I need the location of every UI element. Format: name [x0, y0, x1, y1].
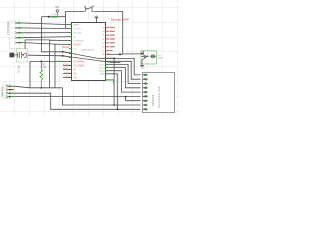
- svg-text:L1 100: L1 100: [51, 14, 58, 16]
- svg-text:4: 4: [12, 38, 13, 40]
- svg-text:FTDI BASIC: FTDI BASIC: [7, 21, 10, 35]
- svg-text:Dev real time clock: Dev real time clock: [157, 85, 161, 108]
- svg-text:26: 26: [102, 39, 104, 41]
- svg-text:2: 2: [12, 28, 13, 30]
- svg-text:D3 (PWM): D3 (PWM): [74, 41, 84, 43]
- svg-text:20: 20: [102, 54, 104, 56]
- svg-text:27: 27: [102, 43, 104, 45]
- svg-text:D5 (PWM): D5 (PWM): [74, 61, 85, 63]
- svg-text:(D12): (D12): [99, 67, 105, 69]
- svg-text:RX (D0): RX (D0): [74, 33, 82, 35]
- svg-text:1: 1: [12, 23, 13, 25]
- svg-text:ATMEGA328P: ATMEGA328P: [81, 48, 95, 51]
- svg-text:5V: 5V: [55, 5, 59, 9]
- svg-text:AREF: AREF: [74, 24, 80, 27]
- svg-text:25: 25: [102, 35, 104, 37]
- svg-text:GND: GND: [100, 74, 105, 76]
- svg-text:Atmega 328P: Atmega 328P: [111, 18, 129, 22]
- svg-text:BR23D08: BR23D08: [151, 94, 155, 106]
- svg-text:BATT 9V: BATT 9V: [1, 86, 4, 96]
- svg-text:24: 24: [102, 31, 104, 33]
- svg-text:RESET: RESET: [62, 47, 70, 49]
- svg-text:(D11): (D11): [99, 64, 105, 66]
- svg-text:28: 28: [102, 47, 104, 49]
- svg-text:TX (D1): TX (D1): [74, 29, 82, 31]
- svg-text:23: 23: [102, 27, 104, 29]
- svg-text:Cer: Cer: [158, 54, 162, 57]
- svg-text:C2 22p: C2 22p: [18, 65, 21, 73]
- svg-text:22pF: 22pF: [158, 57, 164, 59]
- svg-text:3: 3: [12, 33, 13, 35]
- svg-text:RESET: RESET: [74, 45, 82, 47]
- svg-text:(D13): (D13): [99, 71, 105, 73]
- svg-text:D6 (PWM): D6 (PWM): [74, 65, 85, 67]
- svg-text:19: 19: [102, 50, 104, 52]
- svg-text:5: 5: [12, 42, 13, 44]
